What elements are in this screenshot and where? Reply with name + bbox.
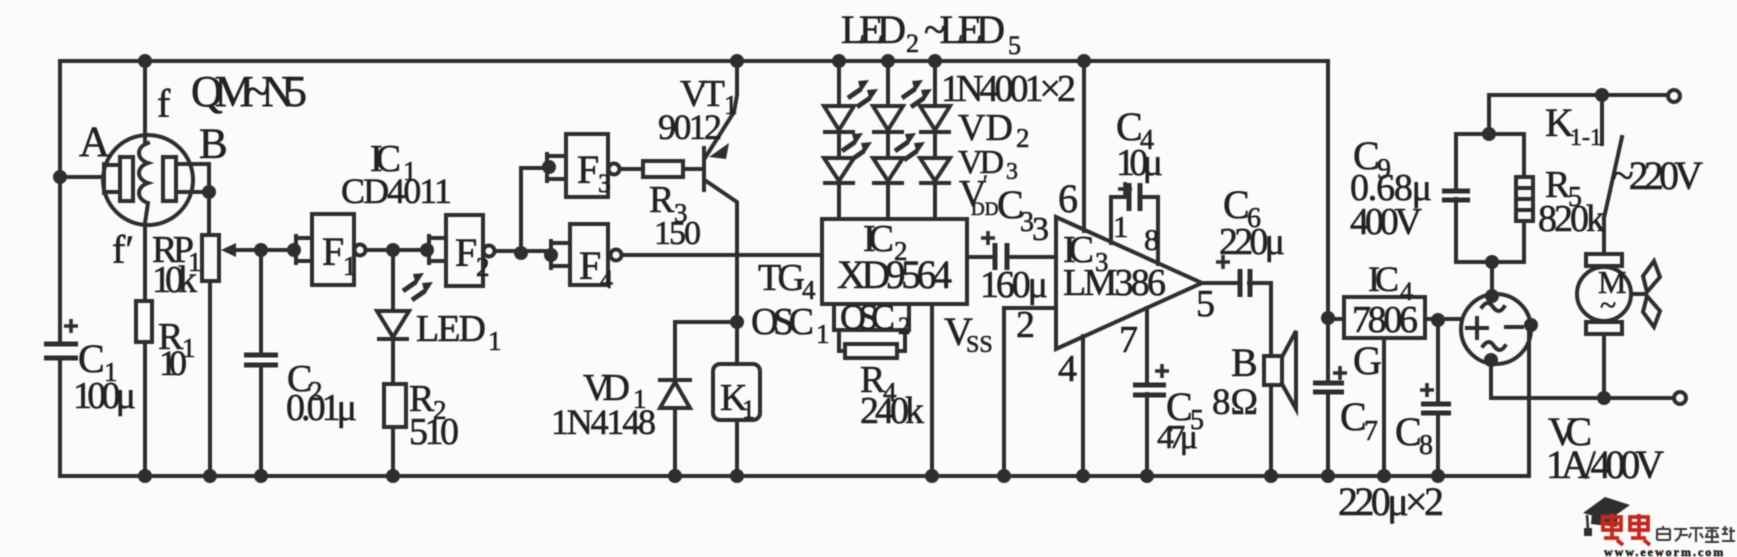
svg-text:2: 2 <box>894 236 908 266</box>
svg-text:1: 1 <box>724 90 738 120</box>
svg-text:5: 5 <box>1568 182 1582 213</box>
svg-text:DD: DD <box>971 199 998 220</box>
svg-text:~LED: ~LED <box>924 7 1005 52</box>
svg-text:4: 4 <box>1058 348 1077 390</box>
svg-text:1: 1 <box>343 251 357 281</box>
svg-text:1A/400V: 1A/400V <box>1546 442 1664 487</box>
svg-text:C: C <box>1395 409 1422 454</box>
svg-text:6: 6 <box>1058 176 1078 221</box>
svg-text:F: F <box>579 243 601 288</box>
svg-text:1: 1 <box>182 333 196 363</box>
svg-text:B: B <box>199 121 228 168</box>
svg-text:1: 1 <box>403 156 417 186</box>
svg-text:CD4011: CD4011 <box>341 171 452 211</box>
svg-text:B: B <box>1231 340 1258 385</box>
svg-text:C: C <box>1340 394 1367 439</box>
svg-text:9: 9 <box>1377 154 1391 185</box>
svg-text:F: F <box>322 229 344 274</box>
svg-text:1: 1 <box>488 326 502 356</box>
svg-text:2: 2 <box>1016 123 1030 153</box>
svg-text:1: 1 <box>633 384 647 414</box>
svg-text:1: 1 <box>188 247 202 277</box>
svg-text:QM~N5: QM~N5 <box>191 67 307 116</box>
svg-text:TG: TG <box>758 257 805 299</box>
svg-text:VD: VD <box>958 107 1013 149</box>
svg-text:SS: SS <box>966 332 993 358</box>
svg-text:3: 3 <box>674 198 688 228</box>
svg-text:LM386: LM386 <box>1063 262 1166 304</box>
svg-text:3: 3 <box>1095 247 1109 277</box>
svg-text:400V: 400V <box>1350 201 1423 243</box>
svg-text:G: G <box>1353 338 1382 383</box>
svg-text:1N4001×2: 1N4001×2 <box>941 68 1076 110</box>
svg-text:f′: f′ <box>112 227 134 272</box>
svg-text:2: 2 <box>476 252 490 282</box>
svg-text:4: 4 <box>1400 277 1413 306</box>
svg-text:2: 2 <box>906 29 919 58</box>
svg-text:2: 2 <box>898 313 911 340</box>
svg-text:220μ×2: 220μ×2 <box>1338 479 1444 524</box>
svg-text:6: 6 <box>1247 203 1261 234</box>
svg-text:7: 7 <box>1364 416 1378 447</box>
svg-text:~220V: ~220V <box>1612 153 1703 198</box>
svg-text:5: 5 <box>1196 283 1215 325</box>
svg-text:1-1: 1-1 <box>1570 125 1602 151</box>
svg-text:3: 3 <box>1032 211 1049 248</box>
svg-text:5: 5 <box>1008 31 1021 60</box>
svg-text:A: A <box>79 119 110 166</box>
svg-text:1: 1 <box>1113 209 1129 244</box>
svg-text:4: 4 <box>600 265 613 294</box>
svg-text:2: 2 <box>433 395 447 425</box>
svg-text:160μ: 160μ <box>980 264 1048 306</box>
svg-text:5: 5 <box>1190 405 1204 436</box>
svg-text:F: F <box>455 230 477 275</box>
svg-text:4: 4 <box>883 377 897 407</box>
svg-text:www.eeworm.com: www.eeworm.com <box>1604 545 1725 557</box>
svg-text:1: 1 <box>104 357 118 387</box>
svg-text:IC: IC <box>1368 259 1399 299</box>
svg-text:~: ~ <box>1600 289 1616 322</box>
svg-text:LED: LED <box>416 308 486 350</box>
svg-text:8Ω: 8Ω <box>1212 382 1258 423</box>
svg-text:3: 3 <box>1006 159 1018 185</box>
svg-text:4: 4 <box>802 275 816 305</box>
svg-text:4: 4 <box>1140 125 1154 156</box>
svg-text:2: 2 <box>309 376 323 406</box>
svg-text:1: 1 <box>742 395 755 424</box>
svg-text:9012: 9012 <box>658 107 722 147</box>
svg-text:OSC: OSC <box>751 301 814 343</box>
svg-text:3: 3 <box>1020 207 1034 238</box>
svg-text:F: F <box>577 147 599 192</box>
svg-text:1: 1 <box>816 319 830 349</box>
svg-text:2: 2 <box>1016 304 1035 346</box>
svg-text:OSC: OSC <box>840 297 895 337</box>
svg-text:3: 3 <box>598 169 611 198</box>
svg-text:8: 8 <box>1144 222 1160 257</box>
svg-text:f: f <box>157 81 171 126</box>
svg-text:LED: LED <box>841 7 906 52</box>
svg-text:′: ′ <box>983 170 988 195</box>
svg-text:8: 8 <box>1419 430 1433 461</box>
svg-text:7: 7 <box>1119 319 1138 361</box>
